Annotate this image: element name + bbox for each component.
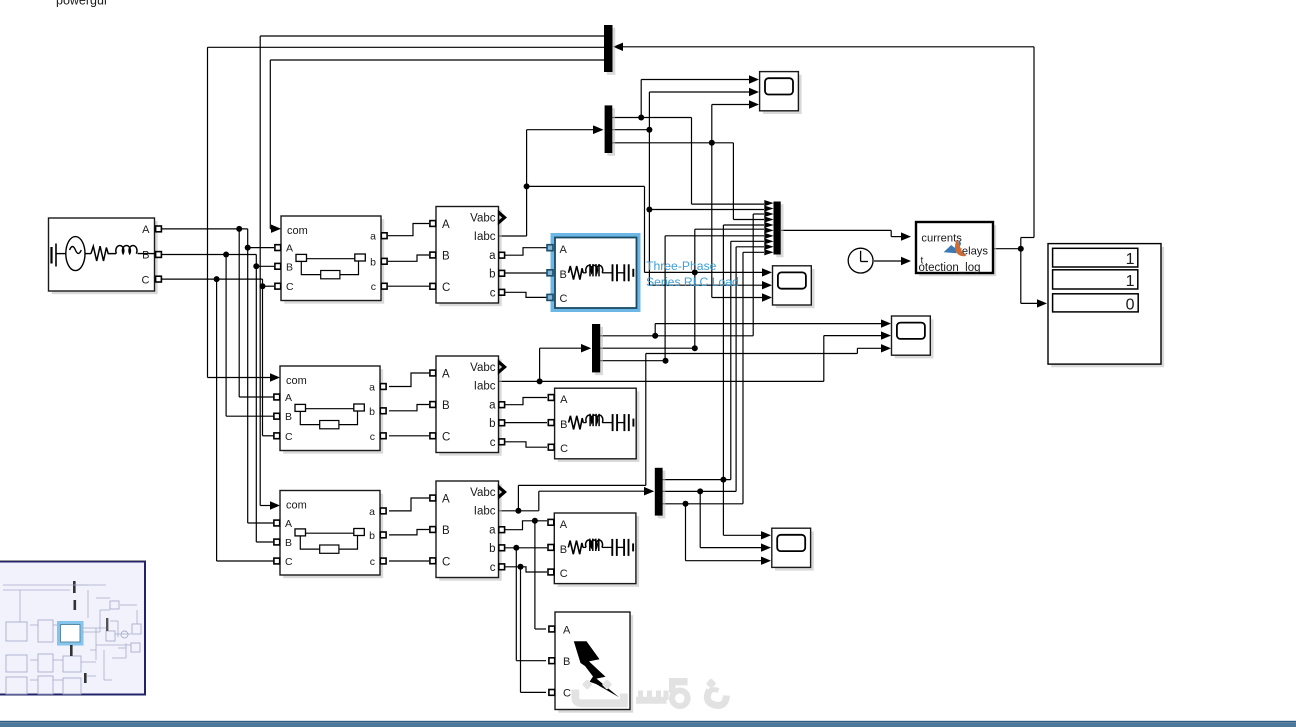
svg-text:C: C [560,568,568,580]
wire: measurement2 Iabc long line to scope3 [498,380,824,382]
demux (relay commands) [604,25,615,75]
wire: measurement3 a branch down to fault A [532,518,538,524]
arrow into mux2 [594,126,604,134]
wire: source C to breaker1 C [162,278,263,280]
svg-text:b: b [489,543,495,555]
wires: measurement1 abc to RLC load1 [505,248,547,256]
svg-text:B: B [286,261,293,273]
junction A2 [245,245,251,251]
scope 3 [892,316,934,358]
svg-text:com: com [287,225,308,237]
wire: measurement3 Iabc to mux4 input [498,510,539,512]
three-phase V-I measurement 3 body [436,481,502,581]
svg-text:C: C [560,293,568,305]
svg-text:C: C [442,556,450,568]
wire: clock to t input [874,260,902,262]
wire: phase C drop to breaker2 C [262,286,264,436]
wires: breaker3 outputs to measurement3 inputs [389,498,429,511]
svg-text:1: 1 [1126,273,1135,290]
arrow into mux3 [581,344,591,352]
wire: mux2 out2 with scope1/scope2 branches [612,129,649,131]
svg-text:b: b [489,268,495,280]
svg-text:c: c [490,437,496,449]
mux 2 [605,105,616,155]
svg-text:B: B [142,250,149,262]
svg-text:B: B [442,525,450,537]
scope 1 [760,72,802,114]
svg-text:B: B [560,544,567,556]
wire: big-mux output to MATLAB function currents input [781,229,891,231]
wire: mux3 out2 up to big-mux [600,347,695,349]
svg-text:c: c [370,431,375,443]
svg-text:c: c [371,281,376,293]
wire: measurement1 Iabc up to mux2 input [498,235,527,237]
wires: breaker2 outputs to measurement2 inputs [389,373,429,387]
wire: source A to breaker1 A with branches [162,228,248,230]
svg-text:C: C [560,443,568,455]
wire: phase A drop to breaker3 A [247,248,249,523]
svg-text:A: A [285,518,292,530]
svg-text:0: 0 [1126,296,1135,313]
clock block [848,248,874,274]
svg-text:a: a [489,250,496,262]
scope 4 [772,528,814,570]
junction relays [1018,246,1024,252]
svg-text:a: a [489,400,496,412]
wire: mux3 out3 up to big-mux [600,360,666,362]
svg-text:C: C [285,431,293,443]
svg-text:A: A [560,394,568,406]
svg-text:C: C [442,282,450,294]
scope 2 [773,266,815,308]
three-phase V-I measurement 1 body [436,207,502,307]
svg-text:a: a [369,382,375,394]
wire: relays output to display [993,248,1021,250]
svg-text:A: A [442,494,450,506]
wire: mux2 out1 with scope1 branch and big-mux feed [612,117,692,119]
svg-text:A: A [285,392,292,404]
svg-text:C: C [286,281,294,293]
wire: phase A drop to breaker2 A [238,229,240,397]
svg-text:B: B [442,251,450,263]
three-phase breaker 1 body [281,216,384,304]
svg-text:otection_log: otection_log [919,262,981,274]
svg-text:A: A [442,219,450,231]
svg-text:b: b [369,530,375,542]
khamsat watermark [575,678,726,706]
svg-text:B: B [442,400,450,412]
three-phase breaker 3 body [280,491,383,579]
svg-text:Iabc: Iabc [474,506,496,518]
three-phase fault body [555,612,633,713]
wire bus: demux outputs to breaker com lines [260,35,604,37]
three-phase series RLC load 2 body [555,388,640,462]
svg-text:A: A [560,244,568,256]
three-phase V-I measurement 2 body [436,356,502,456]
wires: measurement3 abc to RLC load3 [505,521,547,530]
svg-text:Vabc: Vabc [470,487,496,499]
svg-text:C: C [285,556,293,568]
svg-text:b: b [489,418,495,430]
svg-text:Vabc: Vabc [470,362,496,374]
svg-text:C: C [142,275,150,287]
wire: phase B drop to breaker3 B [255,266,257,542]
junction B1 [223,252,229,258]
display block [1048,244,1164,368]
wire: Iabc1 branch right and down to scope2/scope3 [527,185,645,187]
junction C2 [260,283,266,289]
junction B2 [253,263,259,269]
svg-text:B: B [563,656,570,668]
wire: mux4 out1 branches to big-mux and scope4 [662,479,731,481]
svg-text:powergui: powergui [56,0,107,8]
svg-text:Vabc: Vabc [470,213,496,225]
svg-text:Iabc: Iabc [474,381,496,393]
arrow into demux right side [613,43,623,51]
wire: mux4 out3 branches [662,503,743,505]
svg-text:c: c [490,562,496,574]
mux 3 [592,324,603,375]
junction A1 [236,226,242,232]
svg-text:C: C [563,688,571,700]
svg-text:a: a [489,525,496,537]
wires: breaker1 outputs to measurement1 inputs [388,224,429,236]
wires: measurement2 abc to RLC load2 [505,398,547,405]
three-phase source body [49,218,158,294]
svg-text:a: a [369,506,375,518]
wire: mux3 out1 to big-mux and scope3 [600,335,753,337]
MATLAB function block currents_relays_protection_log [916,222,996,276]
bottom separator band [0,721,1296,722]
svg-text:A: A [142,224,150,236]
arrow into mux4 [644,487,654,495]
svg-text:b: b [369,406,375,418]
wire: measurement3 b branch down to fault B [513,545,519,551]
big multiplexer with 10 inputs [764,200,783,257]
svg-text:Series RLC Load: Series RLC Load [646,275,739,289]
svg-text:A: A [563,625,571,637]
wire: phase B drop to breaker2 B [225,255,227,417]
svg-text:B: B [285,411,292,423]
svg-text:1: 1 [1126,251,1135,268]
svg-text:a: a [370,231,376,243]
svg-text:Three-Phase: Three-Phase [646,259,717,273]
svg-text:com: com [286,375,307,387]
wire: mux4 out2 branches [662,490,736,492]
svg-text:c: c [370,556,375,568]
svg-text:C: C [442,431,450,443]
three-phase breaker 2 body [280,366,383,454]
wire: measurement3 c branch down to fault C [518,564,524,570]
wire: phase C drop to breaker3 C [216,279,218,561]
svg-text:Iabc: Iabc [474,231,496,243]
junction C1 [214,276,220,282]
junction on scope2 line [692,269,698,275]
mux 4 [655,468,666,519]
svg-text:com: com [286,500,307,512]
minimap overview panel [0,561,145,695]
wire: mux2 out3 with scope1/scope2 branches [612,142,733,144]
svg-text:A: A [560,519,568,531]
svg-text:c: c [490,287,496,299]
three-phase series RLC load 3 body [554,513,639,587]
three-phase series RLC load 1 (selected) [547,233,641,312]
junction Iabc1 [524,183,530,189]
svg-text:B: B [285,537,292,549]
svg-text:b: b [370,256,376,268]
wire: feedback relays to demux [623,46,1034,48]
svg-text:A: A [286,243,293,255]
svg-text:B: B [560,419,567,431]
wire: source B to breaker1 B [162,254,256,256]
svg-text:A: A [442,369,450,381]
arrows into breaker com ports [271,225,281,233]
svg-text:B: B [560,269,567,281]
